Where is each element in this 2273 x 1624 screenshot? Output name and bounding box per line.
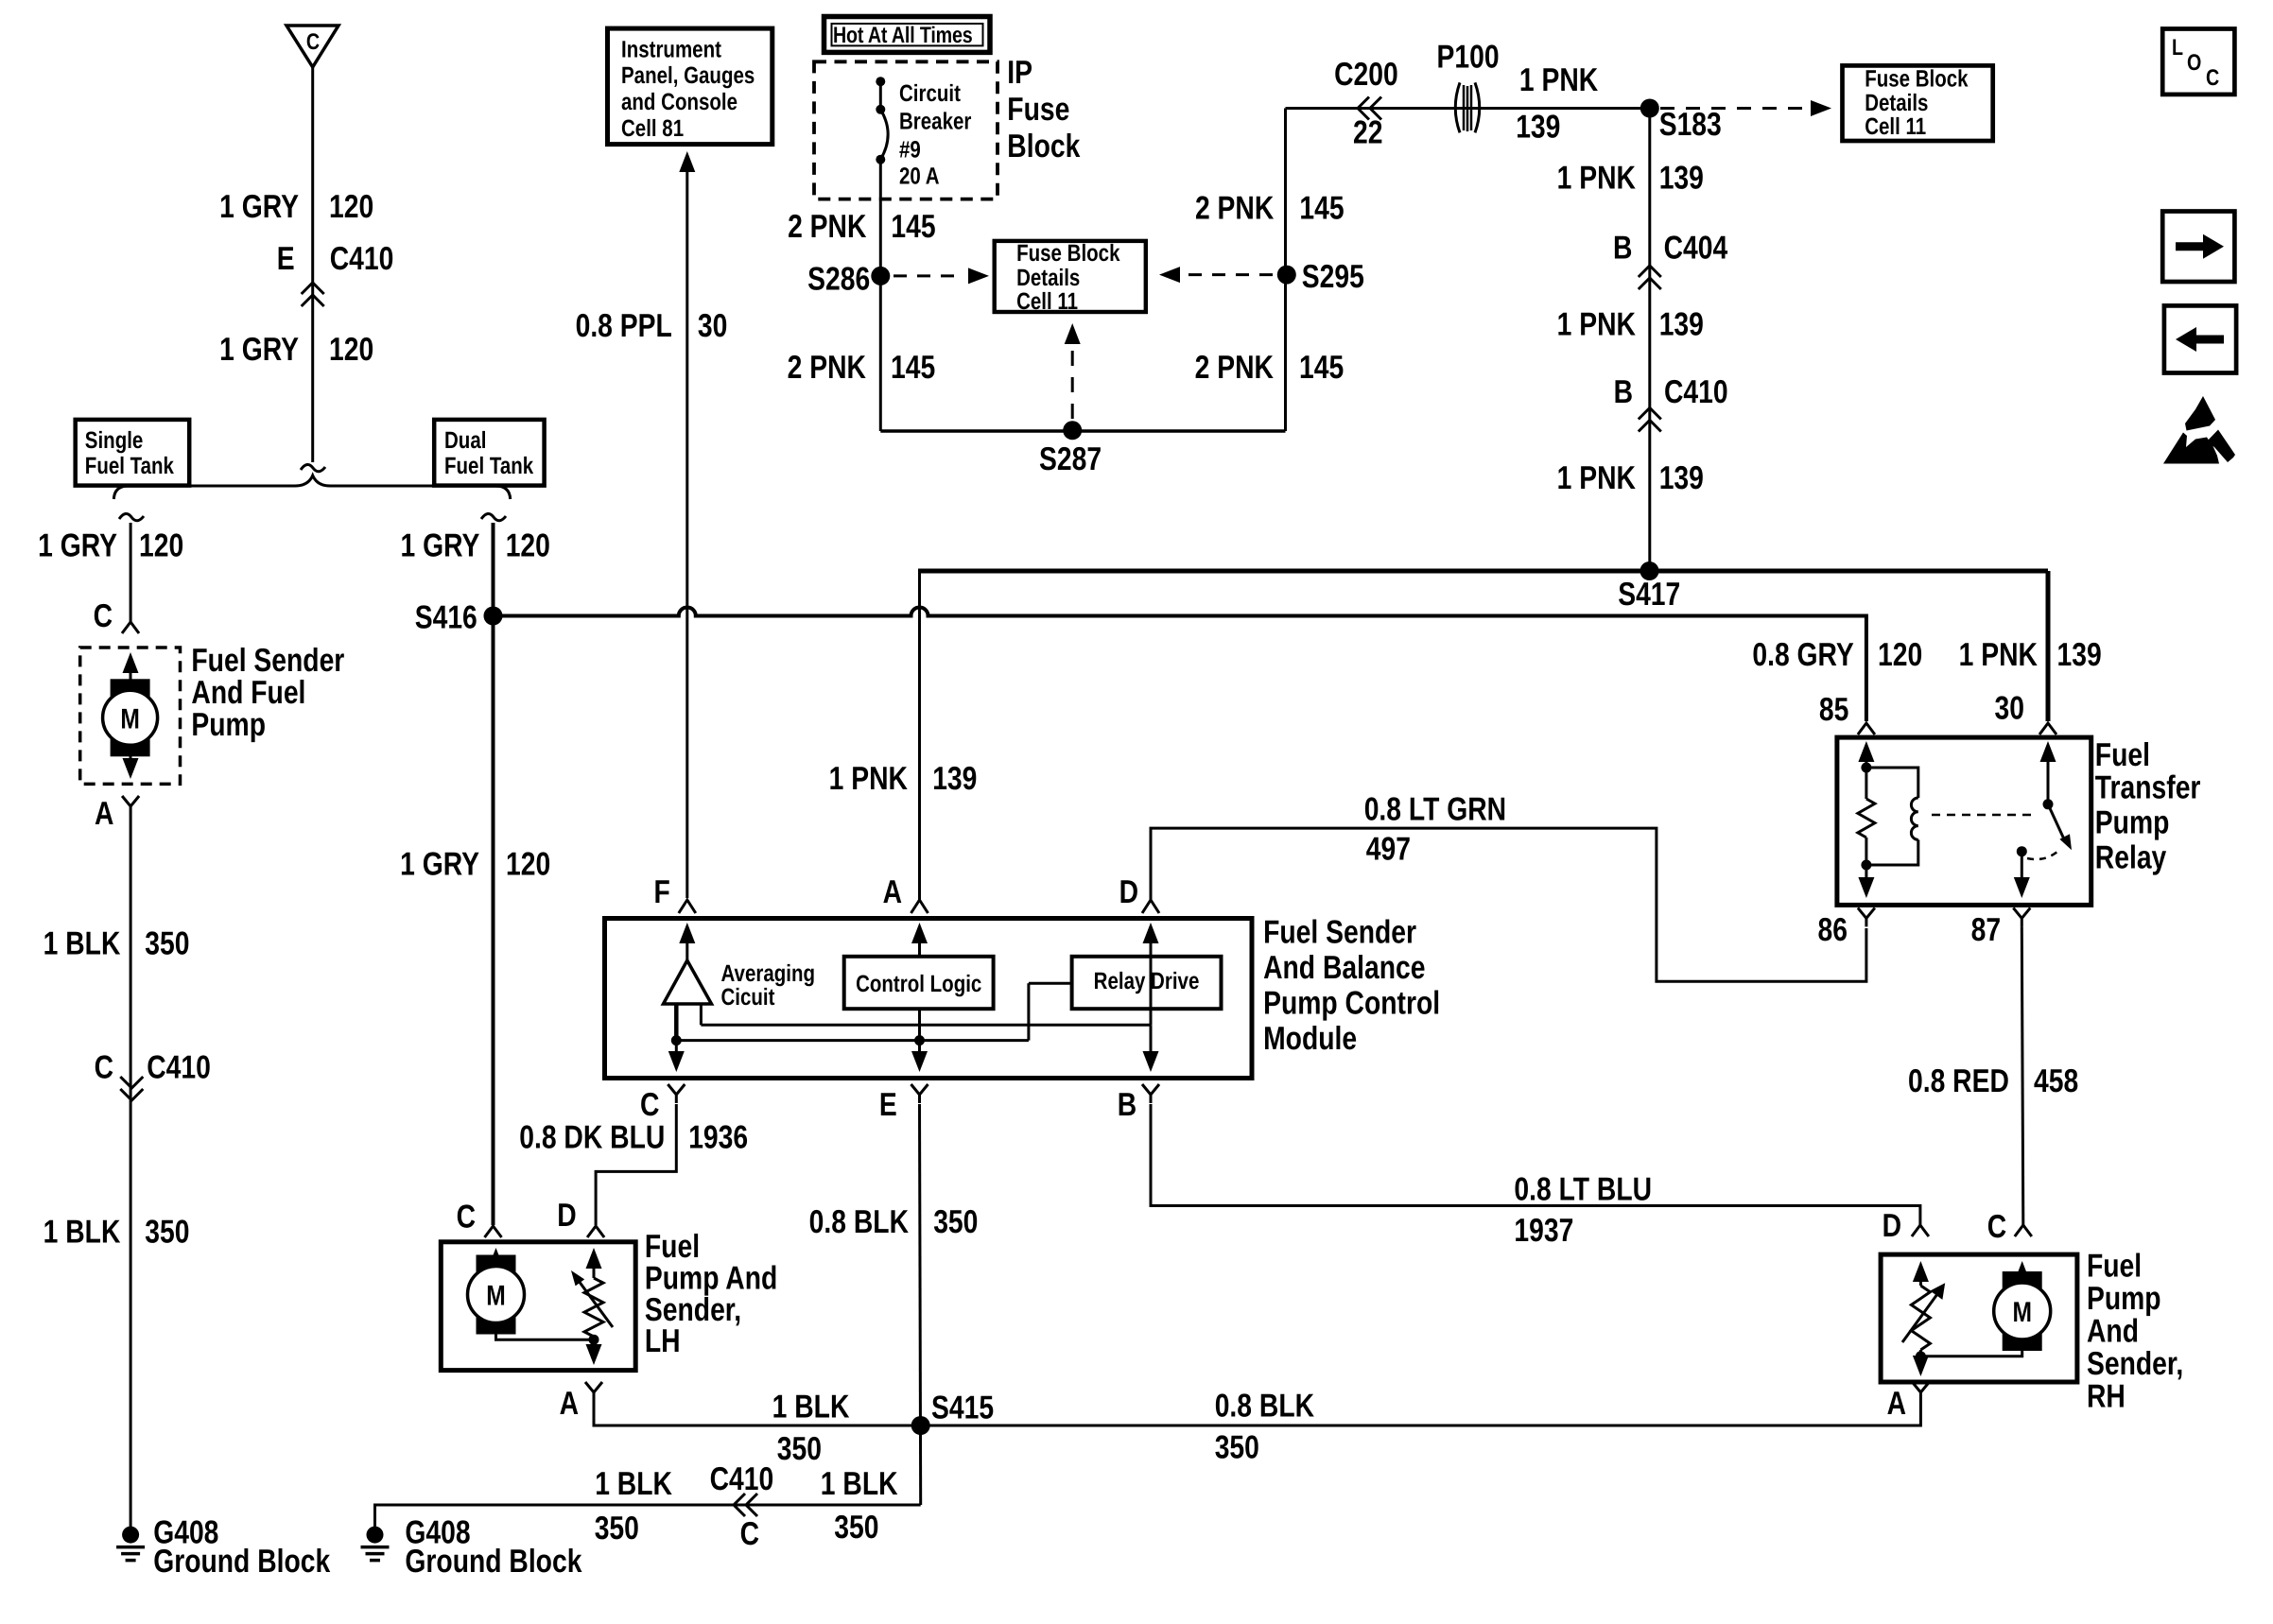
svg-text:S183: S183 [1659, 107, 1722, 143]
svg-text:0.8 LT BLU: 0.8 LT BLU [1514, 1171, 1652, 1207]
svg-text:B: B [1613, 230, 1632, 266]
svg-text:Fuel Tank: Fuel Tank [85, 453, 174, 479]
svg-text:B: B [1118, 1087, 1136, 1123]
svg-text:IP: IP [1007, 55, 1032, 91]
svg-text:0.8 RED: 0.8 RED [1908, 1063, 2009, 1099]
svg-text:139: 139 [932, 761, 977, 797]
svg-text:350: 350 [595, 1511, 639, 1546]
svg-text:1 BLK: 1 BLK [772, 1390, 850, 1425]
svg-text:497: 497 [1366, 832, 1411, 868]
svg-text:350: 350 [777, 1431, 822, 1467]
svg-text:350: 350 [933, 1204, 978, 1240]
svg-text:P100: P100 [1437, 39, 1500, 75]
svg-text:87: 87 [1971, 912, 2001, 948]
svg-text:1 PNK: 1 PNK [1519, 62, 1598, 98]
svg-text:D: D [557, 1198, 576, 1234]
svg-text:2 PNK: 2 PNK [788, 209, 866, 245]
svg-text:Fuel Sender: Fuel Sender [1263, 914, 1416, 950]
svg-text:A: A [95, 796, 113, 832]
svg-text:C: C [640, 1087, 659, 1123]
svg-text:E: E [277, 241, 295, 277]
svg-text:145: 145 [891, 350, 935, 386]
svg-text:1 BLK: 1 BLK [821, 1466, 898, 1502]
svg-text:Relay Drive: Relay Drive [1094, 968, 1200, 994]
svg-text:1 PNK: 1 PNK [1557, 307, 1636, 343]
svg-text:30: 30 [1995, 691, 2024, 727]
svg-text:C410: C410 [1664, 374, 1728, 410]
svg-text:1 PNK: 1 PNK [1959, 637, 2038, 673]
svg-text:Fuel: Fuel [645, 1229, 700, 1265]
svg-text:Ground Block: Ground Block [153, 1544, 331, 1580]
svg-text:Pump Control: Pump Control [1263, 986, 1440, 1022]
svg-text:Dual: Dual [444, 427, 486, 454]
svg-text:A: A [560, 1386, 579, 1422]
svg-text:139: 139 [1659, 161, 1704, 197]
svg-text:1 PNK: 1 PNK [829, 761, 908, 797]
svg-text:1 BLK: 1 BLK [43, 926, 121, 962]
svg-text:C200: C200 [1334, 57, 1398, 93]
svg-text:Instrument: Instrument [621, 37, 721, 63]
svg-text:D: D [1883, 1208, 1901, 1244]
svg-text:D: D [1119, 874, 1138, 910]
svg-text:120: 120 [1878, 637, 1922, 673]
svg-text:2 PNK: 2 PNK [1195, 191, 1274, 227]
svg-text:1 GRY: 1 GRY [401, 528, 480, 564]
svg-text:C410: C410 [330, 241, 394, 277]
svg-text:C: C [1987, 1209, 2006, 1245]
svg-text:S415: S415 [931, 1390, 994, 1425]
svg-text:L: L [2172, 35, 2183, 60]
svg-text:F: F [654, 874, 670, 910]
svg-text:2 PNK: 2 PNK [788, 350, 866, 386]
svg-text:120: 120 [506, 528, 550, 564]
svg-text:Fuse Block: Fuse Block [1016, 240, 1119, 267]
svg-text:145: 145 [891, 209, 935, 245]
svg-text:and Console: and Console [621, 89, 737, 115]
svg-text:Details: Details [1016, 265, 1080, 291]
svg-text:Cicuit: Cicuit [721, 984, 775, 1011]
svg-text:Pump: Pump [2095, 805, 2170, 841]
svg-text:Panel, Gauges: Panel, Gauges [621, 62, 755, 89]
svg-text:M: M [2012, 1297, 2032, 1328]
svg-text:350: 350 [1215, 1430, 1259, 1466]
svg-text:And: And [2087, 1314, 2139, 1350]
svg-text:86: 86 [1818, 912, 1848, 948]
svg-text:120: 120 [139, 528, 183, 564]
svg-text:Fuel Sender: Fuel Sender [191, 643, 344, 679]
svg-text:1 PNK: 1 PNK [1557, 460, 1636, 496]
svg-text:And Balance: And Balance [1263, 950, 1425, 986]
svg-text:Fuse Block: Fuse Block [1865, 65, 1968, 92]
svg-text:Cell 11: Cell 11 [1016, 288, 1078, 315]
svg-text:Fuel: Fuel [2095, 737, 2150, 773]
svg-text:120: 120 [329, 189, 373, 225]
svg-text:20 A: 20 A [899, 164, 940, 190]
svg-text:Pump: Pump [2087, 1281, 2161, 1317]
svg-text:145: 145 [1299, 191, 1344, 227]
svg-text:0.8 BLK: 0.8 BLK [809, 1204, 909, 1240]
svg-text:E: E [879, 1087, 897, 1123]
svg-text:Circuit: Circuit [899, 80, 961, 107]
svg-text:And Fuel: And Fuel [191, 675, 305, 711]
svg-text:RH: RH [2087, 1379, 2126, 1415]
svg-text:#9: #9 [899, 136, 921, 163]
svg-text:C: C [95, 1050, 113, 1086]
svg-text:B: B [1614, 374, 1633, 410]
svg-text:458: 458 [2034, 1063, 2078, 1099]
svg-text:A: A [883, 874, 902, 910]
svg-text:Sender,: Sender, [645, 1292, 741, 1328]
svg-text:350: 350 [834, 1510, 878, 1546]
svg-text:C: C [2206, 65, 2219, 91]
svg-text:120: 120 [329, 332, 373, 368]
svg-text:Cell 11: Cell 11 [1865, 113, 1926, 140]
svg-text:Sender,: Sender, [2087, 1346, 2183, 1382]
svg-text:Relay: Relay [2095, 840, 2166, 876]
svg-text:Ground Block: Ground Block [405, 1544, 582, 1580]
svg-text:C: C [740, 1516, 759, 1552]
svg-text:M: M [120, 703, 140, 734]
svg-text:Averaging: Averaging [721, 960, 815, 987]
svg-text:LH: LH [645, 1323, 681, 1359]
svg-text:1 PNK: 1 PNK [1557, 161, 1636, 197]
svg-text:85: 85 [1819, 692, 1848, 728]
svg-text:Fuel: Fuel [2087, 1249, 2142, 1285]
svg-text:M: M [486, 1281, 506, 1312]
svg-text:22: 22 [1353, 115, 1382, 151]
svg-text:Fuel Tank: Fuel Tank [444, 453, 533, 479]
svg-text:O: O [2187, 50, 2201, 76]
svg-text:30: 30 [698, 308, 727, 344]
svg-text:1 BLK: 1 BLK [595, 1466, 672, 1502]
svg-text:1936: 1936 [688, 1120, 748, 1156]
svg-text:0.8 BLK: 0.8 BLK [1215, 1389, 1314, 1425]
svg-text:0.8 LT GRN: 0.8 LT GRN [1364, 792, 1506, 828]
svg-text:S416: S416 [415, 600, 477, 636]
svg-text:350: 350 [145, 926, 189, 962]
svg-text:Cell 81: Cell 81 [621, 115, 684, 142]
svg-text:1 GRY: 1 GRY [219, 332, 299, 368]
svg-text:0.8 DK BLU: 0.8 DK BLU [519, 1120, 665, 1156]
svg-text:350: 350 [145, 1214, 189, 1250]
svg-text:1 BLK: 1 BLK [43, 1214, 121, 1250]
svg-text:C: C [306, 29, 320, 55]
svg-text:Details: Details [1865, 90, 1928, 116]
svg-text:139: 139 [1516, 109, 1560, 145]
svg-text:139: 139 [1659, 307, 1704, 343]
svg-text:Hot At All Times: Hot At All Times [833, 23, 973, 48]
svg-text:Block: Block [1007, 129, 1081, 164]
svg-text:139: 139 [1659, 460, 1704, 496]
svg-text:C410: C410 [147, 1050, 211, 1086]
svg-text:C404: C404 [1664, 230, 1728, 266]
svg-text:Single: Single [85, 427, 144, 454]
svg-text:139: 139 [2057, 637, 2102, 673]
svg-text:1937: 1937 [1514, 1213, 1573, 1249]
svg-text:C: C [457, 1200, 476, 1235]
svg-text:Pump: Pump [191, 707, 266, 743]
svg-text:1 GRY: 1 GRY [38, 528, 117, 564]
svg-text:S295: S295 [1302, 259, 1364, 295]
svg-text:C410: C410 [710, 1461, 774, 1497]
svg-text:Transfer: Transfer [2095, 770, 2201, 806]
svg-text:1 GRY: 1 GRY [219, 189, 299, 225]
svg-text:A: A [1887, 1386, 1906, 1422]
svg-text:Pump And: Pump And [645, 1260, 777, 1296]
svg-text:2 PNK: 2 PNK [1195, 350, 1274, 386]
svg-text:Control Logic: Control Logic [856, 971, 981, 997]
svg-text:S286: S286 [807, 262, 870, 298]
svg-text:S417: S417 [1618, 577, 1680, 613]
svg-text:Fuse: Fuse [1007, 92, 1069, 128]
svg-text:Breaker: Breaker [899, 109, 972, 135]
svg-text:S287: S287 [1039, 441, 1102, 477]
svg-text:0.8 PPL: 0.8 PPL [576, 308, 672, 344]
svg-text:Module: Module [1263, 1021, 1357, 1057]
svg-text:145: 145 [1299, 350, 1344, 386]
svg-text:1 GRY: 1 GRY [400, 847, 479, 883]
svg-text:C: C [94, 598, 113, 634]
svg-text:0.8 GRY: 0.8 GRY [1752, 637, 1853, 673]
svg-text:120: 120 [506, 847, 550, 883]
